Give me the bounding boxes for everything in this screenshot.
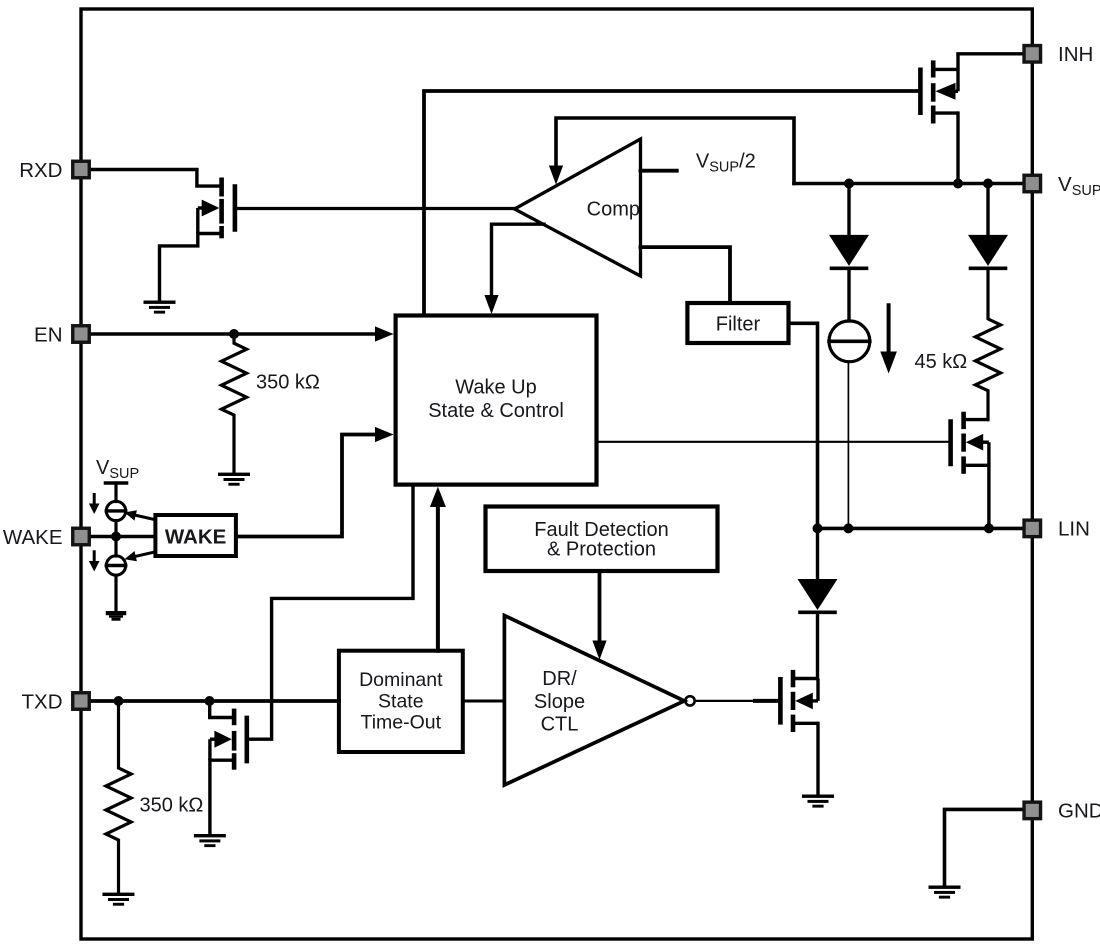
wire Filter output to LIN node [789, 323, 818, 528]
transistor M1 (RXD output NMOS) [198, 178, 235, 239]
junction VSUP/diode D1 [844, 179, 854, 189]
wire Dominant block to Wake Up block (arrow) [436, 503, 440, 651]
svg-text:State: State [378, 691, 424, 713]
pin GND [1024, 802, 1041, 819]
wire Comp lower input to Wake Up block (arrow) [492, 224, 545, 297]
wire VSUP feedback to Comp input (arrow) [556, 118, 794, 184]
svg-text:EN: EN [34, 324, 62, 347]
wire RXD pin to M1 drain [81, 170, 220, 187]
svg-text:VSUP/2: VSUP/2 [696, 151, 756, 176]
wire DR bubble to M5 gate [695, 700, 756, 702]
Wake Up State and Control block [396, 316, 597, 485]
transistor M2 (TXD timeout NMOS) [210, 709, 247, 770]
wire WAKE pin to WAKE block [81, 535, 155, 538]
ground (M1 source) [144, 301, 176, 314]
wire Comp output to Filter [641, 247, 731, 301]
wire VSUP to diode D1 [847, 184, 850, 237]
svg-text:Wake Up: Wake Up [455, 377, 537, 399]
svg-text:DR/: DR/ [542, 668, 577, 690]
ground (TXD resistor) [103, 893, 135, 906]
svg-text:GND: GND [1058, 800, 1100, 823]
wire TXD rail [81, 699, 339, 703]
wire M5 source to ground [816, 723, 819, 795]
wire LIN node to diode D3 [816, 528, 819, 580]
wire M3 source to VSUP rail [956, 113, 959, 183]
Fault Detection block [486, 507, 718, 572]
svg-text:WAKE: WAKE [165, 526, 227, 549]
svg-text:VSUP: VSUP [96, 457, 139, 482]
transistor M5 (LIN low-side driver) [780, 670, 818, 732]
ground (EN resistor) [218, 473, 250, 486]
wire M3 drain to INH pin [958, 52, 1032, 55]
wire Wake Up block to M4 gate [597, 441, 949, 443]
junction VSUP/M3 source [953, 179, 963, 189]
wire D3 to M5 drain [816, 612, 819, 678]
wire GND pin to ground [945, 809, 1024, 886]
wire EN pin to Wake Up block (arrow) [81, 332, 377, 335]
wire M2 gate to Wake Up block [249, 487, 413, 739]
current source I2 (WAKE pull-down) [106, 556, 125, 575]
svg-text:INH: INH [1058, 43, 1093, 66]
arrow current I3 [880, 305, 897, 373]
svg-text:RXD: RXD [19, 159, 62, 182]
wire Fault block to DR driver (arrow) [598, 571, 602, 643]
transistor M3 (INH high-side) [920, 54, 958, 124]
pin INH [1024, 46, 1041, 63]
svg-text:CTL: CTL [541, 714, 579, 736]
ground (WAKE current source) [106, 611, 126, 621]
wire I3 to LIN rail [847, 362, 849, 529]
junction WAKE node [111, 532, 121, 542]
wire M2 source to ground [208, 760, 211, 834]
wire Dominant block to DR driver [463, 700, 505, 703]
wire TXD to M2 drain [210, 701, 232, 718]
wire M1 gate to Comp apex [237, 207, 515, 210]
svg-text:VSUP: VSUP [1058, 173, 1100, 199]
VSUP supply bar [106, 481, 127, 485]
diode D3 [798, 579, 838, 612]
junction LIN/Filter [813, 523, 823, 533]
wire VSUP/2 reference input [641, 169, 677, 173]
transistor M4 (LIN pull-up switch) [951, 412, 989, 529]
arrow WAKE block to I2 [124, 551, 153, 561]
wire WAKE node to current source I2 [114, 537, 117, 557]
resistor 350 kOhm (TXD pull-down) [106, 701, 131, 893]
svg-text:TXD: TXD [22, 691, 63, 714]
Filter block [687, 303, 788, 343]
wire M1 source to ground [160, 234, 198, 302]
diode D2 [968, 235, 1008, 268]
inverter bubble DR output [685, 696, 694, 705]
junction LIN/I3 [843, 523, 853, 533]
svg-text:Filter: Filter [716, 314, 761, 336]
wire VSUP rail [794, 182, 1032, 186]
junction TXD/350k [114, 696, 124, 706]
wire I1 to WAKE node [114, 521, 117, 537]
svg-text:Dominant: Dominant [359, 669, 443, 691]
Dominant State Time-Out block [339, 651, 463, 752]
svg-text:45 kΩ: 45 kΩ [915, 351, 968, 373]
wire VSUP to diode D2 [986, 184, 989, 237]
svg-text:Comp: Comp [587, 199, 640, 221]
ground (M2 source) [194, 834, 226, 847]
svg-text:350 kΩ: 350 kΩ [256, 372, 320, 394]
svg-text:Slope: Slope [534, 691, 585, 713]
svg-text:350 kΩ: 350 kΩ [140, 795, 204, 817]
wire LIN rail [818, 527, 1033, 531]
pin EN [73, 326, 90, 343]
arrow current I2 [89, 552, 100, 572]
pin LIN [1024, 520, 1041, 537]
pin VSUP [1024, 175, 1041, 192]
diode D1 [829, 235, 869, 268]
pin RXD [73, 161, 90, 178]
resistor 350 kOhm (EN pull-down) [221, 334, 246, 473]
resistor 45 kOhm [975, 268, 1000, 419]
junction LIN/M4 source [984, 523, 994, 533]
ground (M5 source) [802, 795, 834, 808]
ground (GND pin) [929, 886, 961, 899]
wire VSUP bar to current source I1 [114, 483, 117, 502]
wire Wake Up block to INH gate rail [424, 91, 918, 314]
wire I2 to ground [114, 575, 117, 611]
WAKE block [155, 515, 236, 556]
pin WAKE [73, 528, 90, 545]
svg-text:Time-Out: Time-Out [361, 712, 442, 734]
junction EN/350k [229, 329, 239, 339]
junction TXD/M2 [205, 696, 215, 706]
junction VSUP/diode D2 [983, 179, 993, 189]
comparator Comp [515, 139, 641, 276]
current source I3 (LIN pull-up) [829, 321, 870, 362]
svg-text:& Protection: & Protection [547, 539, 656, 561]
driver DR/Slope CTL [504, 616, 684, 786]
current source I1 (WAKE pull-up) [106, 501, 125, 520]
arrow WAKE block to I1 [124, 510, 153, 520]
pin TXD [73, 693, 90, 710]
arrow current I1 [89, 495, 100, 515]
svg-text:WAKE: WAKE [3, 526, 63, 549]
svg-text:State & Control: State & Control [428, 400, 564, 422]
wire WAKE block to Wake Up block (arrow) [236, 435, 377, 537]
svg-text:LIN: LIN [1058, 518, 1090, 541]
wire D1 to current source I3 [847, 268, 850, 321]
